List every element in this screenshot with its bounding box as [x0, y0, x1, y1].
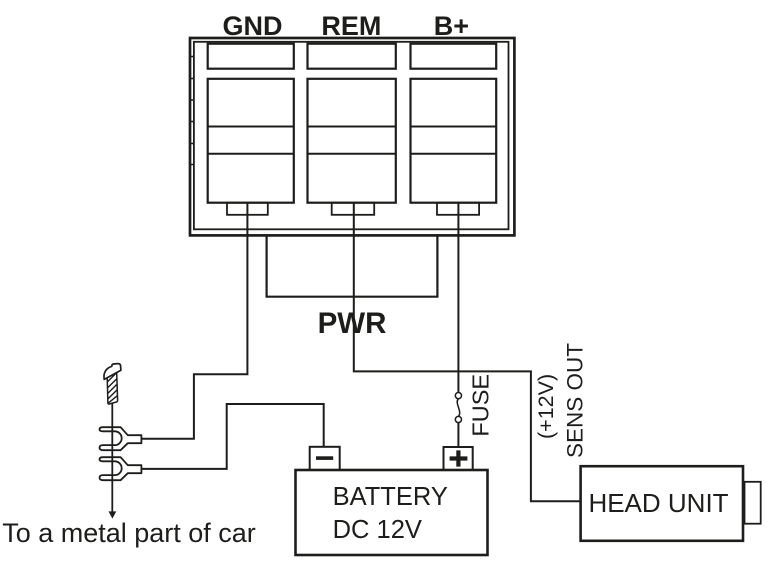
arrow to car body	[109, 511, 117, 518]
screw threads	[107, 373, 117, 403]
PWR cable bracket	[267, 236, 438, 297]
battery plus terminal	[444, 447, 473, 470]
case hinge ticks	[190, 57, 194, 165]
head unit box	[581, 466, 743, 541]
terminal GND body	[208, 79, 294, 203]
terminal REM body dividers	[308, 127, 396, 154]
terminal GND body dividers	[208, 127, 294, 154]
svg-text:PWR: PWR	[318, 307, 387, 340]
amplifier connector outer case	[190, 38, 514, 235]
screw head	[104, 364, 121, 380]
fuse F1	[455, 393, 461, 399]
B+ wire upper segment	[457, 203, 459, 393]
head unit rear tab	[745, 482, 761, 524]
svg-text:REM: REM	[321, 11, 381, 41]
terminal REM clamp tab	[332, 203, 375, 215]
svg-text:DC 12V: DC 12V	[333, 516, 422, 544]
svg-text:B+: B+	[434, 11, 469, 41]
B+ wire lower segment	[457, 423, 459, 447]
GND wire	[142, 203, 247, 439]
terminal B+ body dividers	[411, 127, 497, 154]
REM wire	[354, 203, 581, 502]
fork terminal upper (GND)	[100, 427, 142, 450]
amplifier connector inner case	[194, 42, 509, 230]
fork terminal lower (battery minus)	[100, 457, 142, 480]
svg-text:SENS OUT: SENS OUT	[563, 343, 588, 458]
screw shank	[107, 372, 117, 404]
svg-text:To a metal part of car: To a metal part of car	[2, 518, 256, 548]
terminal GND clamp tab	[227, 203, 268, 215]
svg-text:GND: GND	[223, 11, 283, 41]
svg-text:(+12V): (+12V)	[534, 374, 558, 439]
battery box	[296, 470, 488, 555]
terminal B+ top slot	[411, 44, 497, 69]
terminal REM top slot	[308, 44, 396, 69]
battery minus wire	[141, 404, 323, 469]
battery minus terminal	[310, 447, 340, 470]
plus symbol	[450, 450, 468, 466]
terminal GND top slot	[208, 44, 294, 69]
screw axis line	[111, 403, 113, 513]
terminal B+ clamp tab	[437, 203, 479, 215]
svg-text:BATTERY: BATTERY	[333, 483, 448, 511]
terminal B+ body	[411, 79, 497, 203]
terminal REM body	[308, 79, 396, 203]
svg-text:HEAD UNIT: HEAD UNIT	[588, 488, 728, 518]
svg-text:FUSE: FUSE	[468, 374, 494, 437]
minus symbol	[316, 456, 333, 460]
